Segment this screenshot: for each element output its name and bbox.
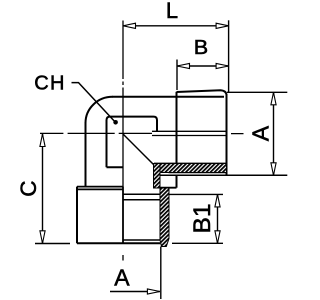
body outline: top edge + thread root bbox=[112, 96, 224, 98]
C bottom extension line bbox=[35, 243, 70, 245]
A right arrow bottom bbox=[271, 163, 276, 176]
male thread root bottom line (section) bbox=[169, 172, 227, 174]
svg-text:A: A bbox=[247, 125, 273, 141]
B arrow right bbox=[216, 63, 229, 68]
female thread end line (section) bbox=[123, 199, 160, 201]
body face lower part (step above socket) bbox=[176, 175, 178, 187]
B1 arrow top bbox=[215, 194, 220, 207]
L arrow left bbox=[123, 23, 136, 28]
male thread crest line bbox=[177, 90, 227, 95]
socket top edge (chamfer line) bbox=[77, 188, 124, 190]
B1 bottom extension line bbox=[172, 242, 223, 244]
female port wall hatch strip upper (section) bbox=[154, 164, 161, 189]
body left edge bbox=[85, 122, 87, 187]
B1 arrow bottom bbox=[215, 231, 220, 244]
CH leader dot bbox=[113, 120, 118, 125]
L dimension line bbox=[123, 25, 229, 27]
section break diagonal bbox=[123, 134, 154, 165]
svg-text:B1: B1 bbox=[189, 204, 216, 234]
svg-text:B: B bbox=[194, 37, 208, 59]
male port bore line bottom (section) bbox=[152, 135, 227, 137]
C arrow bottom bbox=[40, 231, 45, 244]
socket bottom edge bbox=[77, 242, 160, 244]
L extension line right bbox=[228, 20, 230, 92]
male port bore line top (section) bbox=[152, 130, 227, 132]
L arrow right bbox=[216, 23, 229, 28]
B arrow left bbox=[177, 63, 190, 68]
centerline horizontal (right port axis) bbox=[40, 132, 244, 134]
B1 top extension line bbox=[169, 193, 224, 195]
body right face bbox=[176, 92, 178, 164]
CH leader line bbox=[72, 83, 115, 122]
B extension line left bbox=[176, 60, 178, 91]
A bottom arrow bbox=[147, 289, 160, 294]
section boundary at axis (solid) bbox=[122, 187, 124, 244]
svg-text:L: L bbox=[166, 0, 178, 23]
B1 dimension line bbox=[217, 194, 219, 243]
C dimension line bbox=[42, 134, 44, 243]
socket top edge (outer) bbox=[77, 186, 124, 188]
female port chamfer line at opening (section) bbox=[123, 239, 160, 241]
male port wall hatch band (section) bbox=[154, 164, 227, 173]
svg-text:C: C bbox=[16, 181, 41, 197]
C arrow top bbox=[40, 134, 45, 147]
hex flat rectangle (wrench flats) bbox=[107, 117, 158, 168]
socket hub face in section bbox=[123, 193, 160, 195]
svg-text:A: A bbox=[114, 265, 130, 291]
male thread OD bottom line + A extension bbox=[157, 174, 287, 176]
male thread end face bbox=[226, 94, 228, 175]
male port bore line (section) bbox=[154, 163, 227, 165]
A bottom dimension line bbox=[110, 291, 160, 293]
centerline vertical (bottom port axis) bbox=[122, 21, 124, 261]
body corner arc bbox=[86, 97, 113, 123]
B dimension line bbox=[177, 65, 229, 67]
A right extension top bbox=[227, 91, 287, 93]
female port wall hatch strip lower (section) bbox=[160, 188, 169, 247]
socket left edge bbox=[76, 187, 78, 244]
A right dimension line bbox=[273, 92, 275, 175]
notch bottom edge (step above socket, section side) bbox=[160, 187, 177, 189]
A bottom extension line bbox=[160, 247, 162, 300]
A right arrow top bbox=[271, 92, 276, 105]
svg-text:CH: CH bbox=[34, 72, 66, 94]
